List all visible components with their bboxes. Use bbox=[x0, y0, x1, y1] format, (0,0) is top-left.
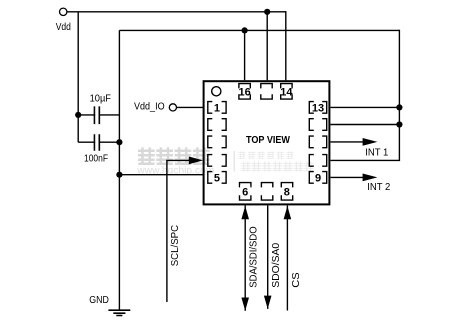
wire left rail bbox=[77, 12, 79, 142]
junction dot bbox=[264, 9, 270, 15]
pin 12 bbox=[309, 119, 326, 131]
svg-text:9: 9 bbox=[315, 172, 321, 184]
wire pin15 drop bbox=[266, 12, 268, 81]
pin 1 bbox=[208, 102, 226, 115]
IC U1 body (16-pin QFN, top view) bbox=[204, 81, 330, 204]
svg-text:TOP VIEW: TOP VIEW bbox=[246, 135, 290, 146]
pin 2 bbox=[208, 119, 226, 131]
wire Vdd top rail bbox=[67, 11, 286, 13]
pin 5 bbox=[208, 172, 226, 185]
svg-text:Vdd_IO: Vdd_IO bbox=[134, 102, 165, 113]
junction dot bbox=[116, 139, 122, 145]
wire pin12 to Vdd net bbox=[331, 124, 400, 126]
junction dot bbox=[75, 112, 81, 118]
svg-text:SDA/SDI/SDO: SDA/SDI/SDO bbox=[249, 226, 260, 288]
pin 14 bbox=[280, 84, 293, 100]
wire capacitor C2 bbox=[78, 141, 119, 143]
svg-text:100nF: 100nF bbox=[84, 154, 108, 165]
svg-text:CS: CS bbox=[291, 272, 302, 288]
svg-text:SCL/SPC: SCL/SPC bbox=[170, 225, 181, 266]
pin 13 bbox=[309, 102, 326, 115]
svg-text:INT 2: INT 2 bbox=[367, 182, 391, 193]
wire SDO/SA0 bbox=[264, 205, 282, 309]
pin1 indicator circle bbox=[212, 87, 221, 96]
pin 7 bbox=[261, 183, 272, 201]
wire SCL/SPC bbox=[167, 157, 203, 303]
wire Vdd second rail bbox=[119, 29, 399, 31]
pin 15 bbox=[261, 84, 272, 100]
svg-text:8: 8 bbox=[284, 186, 290, 198]
svg-text:SDO/SA0: SDO/SA0 bbox=[271, 242, 282, 287]
ground bbox=[89, 295, 130, 315]
junction dot bbox=[396, 121, 402, 127]
svg-text:16: 16 bbox=[238, 86, 250, 98]
pin 10 bbox=[309, 155, 326, 167]
svg-text:14: 14 bbox=[280, 86, 293, 98]
pin 16 bbox=[238, 84, 250, 100]
svg-text:6: 6 bbox=[242, 186, 248, 198]
terminal Vdd_IO bbox=[134, 102, 176, 113]
pin 9 bbox=[309, 172, 326, 185]
capacitor C2 100nF bbox=[84, 134, 108, 165]
capacitor C1 10uF bbox=[90, 94, 111, 125]
junction dot bbox=[242, 27, 248, 33]
wire pin16 drop bbox=[244, 30, 246, 80]
wire capacitor C1 top bbox=[78, 114, 119, 116]
wire SDA/SDI/SDO bbox=[241, 205, 259, 310]
pin 3 bbox=[208, 136, 226, 148]
wire pin13 to Vdd net bbox=[331, 106, 400, 108]
pin 11 bbox=[309, 136, 326, 148]
terminal Vdd bbox=[56, 8, 71, 33]
wire pin14 drop bbox=[285, 11, 287, 80]
svg-text:Vdd: Vdd bbox=[56, 22, 71, 33]
wire Vdd_IO to pin1 bbox=[177, 106, 204, 108]
junction dot bbox=[116, 172, 122, 178]
svg-text:INT 1: INT 1 bbox=[365, 148, 389, 159]
pin 8 bbox=[281, 183, 292, 201]
svg-text:GND: GND bbox=[89, 295, 109, 306]
wire INT 2 bbox=[331, 174, 391, 193]
svg-text:1: 1 bbox=[214, 102, 220, 114]
junction dot bbox=[396, 104, 402, 110]
wire pin5 bbox=[119, 174, 203, 176]
svg-text:5: 5 bbox=[214, 172, 220, 184]
svg-text:13: 13 bbox=[312, 102, 324, 114]
wire CS bbox=[284, 205, 302, 310]
svg-text:10µF: 10µF bbox=[90, 94, 111, 105]
pin 4 bbox=[208, 155, 226, 167]
wire pin10 to Vdd net bbox=[331, 30, 400, 161]
wire INT 1 bbox=[331, 138, 389, 159]
wire right rail to GND bbox=[118, 30, 120, 310]
pin 6 bbox=[240, 183, 251, 201]
